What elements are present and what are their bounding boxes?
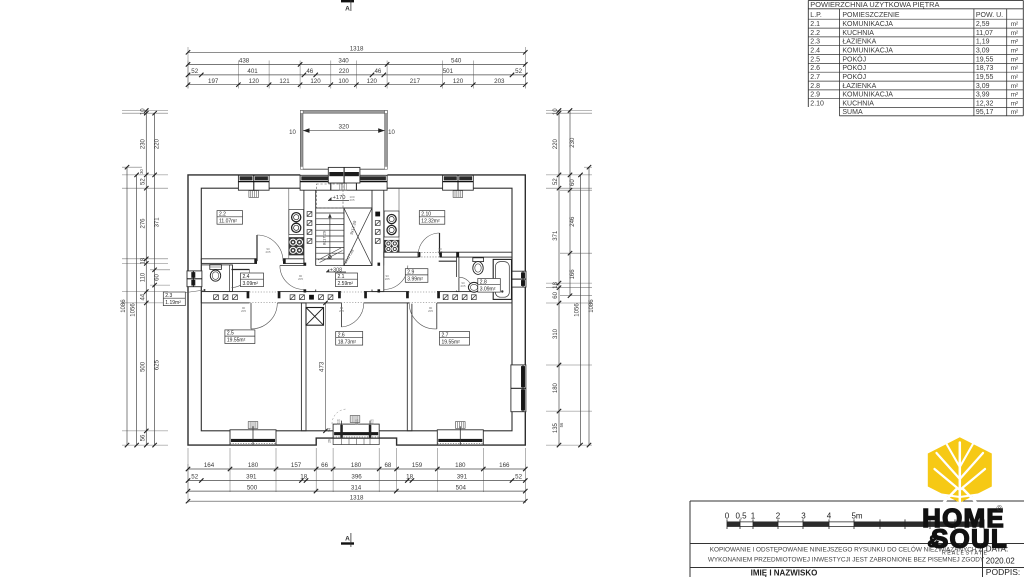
svg-text:52: 52 — [191, 68, 198, 75]
svg-text:1056: 1056 — [131, 303, 137, 317]
svg-text:m²: m² — [1011, 30, 1018, 37]
svg-text:2.7: 2.7 — [442, 332, 449, 338]
svg-text:19,55: 19,55 — [976, 56, 994, 63]
svg-text:m²: m² — [1011, 56, 1018, 63]
svg-text:L.P.: L.P. — [810, 12, 822, 19]
svg-text:1,19: 1,19 — [976, 39, 990, 46]
svg-text:2020.02: 2020.02 — [986, 557, 1015, 566]
svg-text:19.55m²: 19.55m² — [227, 338, 246, 344]
svg-text:10: 10 — [553, 108, 559, 115]
svg-text:26: 26 — [328, 439, 332, 443]
svg-text:310: 310 — [553, 328, 559, 339]
svg-text:18.73m²: 18.73m² — [338, 339, 357, 345]
svg-text:391: 391 — [246, 474, 257, 481]
svg-text:85: 85 — [337, 422, 341, 426]
svg-text:POW. U.: POW. U. — [976, 12, 1003, 19]
svg-text:625: 625 — [154, 359, 160, 370]
svg-text:396: 396 — [351, 474, 362, 481]
svg-text:85: 85 — [355, 422, 359, 426]
svg-text:217: 217 — [410, 78, 421, 85]
svg-text:8x17,29: 8x17,29 — [322, 230, 327, 245]
svg-text:3: 3 — [801, 512, 806, 521]
svg-text:10: 10 — [289, 130, 296, 136]
svg-text:m²: m² — [1011, 48, 1018, 55]
svg-text:10: 10 — [388, 130, 395, 136]
svg-text:180: 180 — [351, 462, 362, 469]
svg-text:205: 205 — [241, 309, 246, 313]
svg-text:246: 246 — [570, 216, 576, 227]
svg-text:205: 205 — [428, 309, 433, 313]
svg-text:52: 52 — [515, 68, 522, 75]
svg-text:2.9: 2.9 — [407, 270, 414, 276]
svg-text:320: 320 — [338, 123, 349, 130]
svg-text:166: 166 — [499, 462, 510, 469]
svg-text:WYKONANIEM PRZEDMIOTOWEJ INWES: WYKONANIEM PRZEDMIOTOWEJ INWESTYCJI JEST… — [708, 557, 985, 564]
svg-text:5m: 5m — [851, 512, 862, 521]
svg-text:11,07: 11,07 — [976, 30, 993, 37]
svg-text:2.4: 2.4 — [810, 48, 820, 55]
svg-text:3,09: 3,09 — [976, 48, 990, 55]
svg-text:ŁAZIENKA: ŁAZIENKA — [842, 83, 876, 90]
svg-text:POKÓJ: POKÓJ — [842, 54, 866, 63]
svg-text:473: 473 — [318, 361, 325, 372]
svg-text:2.7: 2.7 — [810, 74, 820, 81]
svg-text:205: 205 — [437, 250, 442, 254]
svg-text:SOUL: SOUL — [931, 524, 1008, 554]
svg-text:180: 180 — [455, 462, 466, 469]
svg-text:SUMA: SUMA — [842, 109, 863, 116]
svg-text:1086: 1086 — [121, 299, 127, 313]
svg-text:POKÓJ: POKÓJ — [842, 63, 866, 72]
svg-text:0: 0 — [725, 512, 730, 521]
svg-text:POMIESZCZENIE: POMIESZCZENIE — [842, 12, 900, 19]
svg-text:2.4: 2.4 — [243, 274, 250, 280]
svg-text:2: 2 — [776, 512, 781, 521]
svg-text:46: 46 — [374, 68, 381, 75]
svg-text:205: 205 — [265, 250, 270, 254]
svg-text:56: 56 — [140, 434, 146, 441]
svg-text:m²: m² — [1011, 109, 1018, 116]
svg-text:164: 164 — [204, 462, 215, 469]
svg-text:205: 205 — [385, 277, 390, 281]
svg-text:500: 500 — [140, 361, 146, 372]
svg-text:2.10: 2.10 — [421, 211, 431, 217]
svg-text:KOMUNIKACJA: KOMUNIKACJA — [842, 48, 893, 55]
svg-text:2.3: 2.3 — [165, 293, 172, 299]
svg-text:12,32: 12,32 — [976, 101, 994, 108]
svg-text:166: 166 — [570, 269, 576, 280]
svg-text:501: 501 — [443, 68, 454, 75]
svg-text:18: 18 — [553, 281, 559, 288]
svg-text:314: 314 — [351, 484, 362, 491]
svg-text:44: 44 — [140, 293, 146, 300]
svg-text:KOMUNIKACJA: KOMUNIKACJA — [842, 21, 893, 28]
svg-text:IMIĘ I NAZWISKO: IMIĘ I NAZWISKO — [751, 569, 818, 577]
svg-text:2.6: 2.6 — [810, 65, 820, 72]
svg-text:500: 500 — [247, 484, 258, 491]
svg-text:KUCHNIA: KUCHNIA — [842, 30, 874, 37]
svg-text:19,55: 19,55 — [976, 74, 994, 81]
svg-text:60: 60 — [553, 291, 559, 298]
svg-text:230: 230 — [570, 137, 576, 148]
svg-text:A: A — [345, 536, 350, 543]
svg-text:230: 230 — [140, 138, 146, 149]
svg-text:371: 371 — [154, 217, 160, 228]
svg-text:120: 120 — [310, 78, 321, 85]
svg-text:95,17: 95,17 — [976, 109, 994, 116]
svg-text:68: 68 — [384, 462, 391, 469]
svg-text:205: 205 — [349, 198, 354, 202]
svg-text:POWIERZCHNIA UŻYTKOWA PIĘTRA: POWIERZCHNIA UŻYTKOWA PIĘTRA — [810, 0, 939, 9]
svg-text:3.09m²: 3.09m² — [243, 281, 259, 287]
svg-text:120: 120 — [249, 78, 260, 85]
svg-text:3,99: 3,99 — [976, 92, 990, 99]
svg-text:2.10: 2.10 — [810, 101, 824, 108]
svg-text:2.3: 2.3 — [810, 39, 820, 46]
svg-text:2.1: 2.1 — [810, 21, 820, 28]
svg-text:2.6: 2.6 — [338, 332, 345, 338]
svg-text:2.5: 2.5 — [227, 331, 234, 337]
svg-text:1318: 1318 — [350, 494, 364, 501]
svg-text:220: 220 — [553, 138, 559, 149]
svg-text:205: 205 — [339, 309, 344, 313]
svg-text:1086: 1086 — [589, 299, 595, 313]
svg-text:m²: m² — [1011, 101, 1018, 108]
svg-text:3.99m²: 3.99m² — [407, 277, 423, 283]
svg-text:m²: m² — [1011, 74, 1018, 81]
svg-text:46: 46 — [306, 68, 313, 75]
svg-text:18: 18 — [406, 474, 413, 481]
svg-text:2.5: 2.5 — [810, 56, 820, 63]
svg-text:2.9: 2.9 — [810, 92, 820, 99]
svg-text:30: 30 — [139, 169, 144, 174]
svg-text:2.59m²: 2.59m² — [338, 281, 354, 287]
svg-text:1056: 1056 — [575, 303, 581, 317]
svg-text:1.19m²: 1.19m² — [165, 300, 181, 306]
svg-text:504: 504 — [456, 484, 467, 491]
svg-text:3,09: 3,09 — [976, 83, 990, 90]
svg-text:+308: +308 — [330, 267, 342, 273]
svg-text:157: 157 — [291, 462, 302, 469]
svg-text:2,59: 2,59 — [976, 21, 990, 28]
svg-text:11.07m²: 11.07m² — [219, 218, 237, 224]
svg-text:1318: 1318 — [350, 46, 364, 53]
svg-text:121: 121 — [279, 78, 290, 85]
svg-text:205: 205 — [460, 284, 465, 288]
svg-text:m²: m² — [1011, 21, 1018, 28]
svg-text:m²: m² — [1011, 92, 1018, 99]
svg-text:391: 391 — [457, 474, 468, 481]
svg-text:85: 85 — [370, 422, 374, 426]
svg-text:0,5: 0,5 — [735, 512, 747, 521]
svg-text:60: 60 — [154, 274, 160, 281]
svg-text:220: 220 — [154, 138, 160, 149]
svg-text:401: 401 — [247, 68, 258, 75]
svg-text:180: 180 — [553, 382, 559, 393]
svg-text:371: 371 — [553, 230, 559, 241]
svg-text:54: 54 — [328, 428, 332, 432]
svg-text:438: 438 — [239, 58, 250, 65]
svg-text:18,73: 18,73 — [976, 65, 994, 72]
svg-text:2.2: 2.2 — [810, 30, 820, 37]
svg-text:+170: +170 — [332, 195, 345, 201]
svg-text:ŁAZIENKA: ŁAZIENKA — [842, 39, 876, 46]
svg-text:66: 66 — [321, 462, 328, 469]
svg-text:56: 56 — [559, 422, 564, 427]
svg-text:120: 120 — [453, 78, 464, 85]
svg-text:52: 52 — [191, 474, 198, 481]
svg-text:205: 205 — [298, 277, 303, 281]
svg-text:m²: m² — [1011, 83, 1018, 90]
svg-text:110: 110 — [140, 272, 146, 282]
svg-text:®: ® — [997, 504, 1003, 513]
svg-text:POKÓJ: POKÓJ — [842, 72, 866, 81]
svg-text:m²: m² — [1011, 39, 1018, 46]
svg-text:KUCHNIA: KUCHNIA — [842, 101, 874, 108]
svg-text:PODPIS:: PODPIS: — [986, 567, 1020, 577]
svg-text:2.8: 2.8 — [810, 83, 820, 90]
svg-text:KOMUNIKACJA: KOMUNIKACJA — [842, 92, 893, 99]
svg-text:100: 100 — [338, 78, 349, 85]
svg-text:180: 180 — [248, 462, 259, 469]
svg-text:203: 203 — [494, 78, 505, 85]
svg-text:52: 52 — [553, 178, 559, 185]
svg-text:2.1: 2.1 — [338, 274, 345, 280]
svg-text:120: 120 — [367, 78, 378, 85]
svg-text:276: 276 — [140, 218, 146, 229]
svg-text:52: 52 — [515, 474, 522, 481]
svg-text:12.32m²: 12.32m² — [421, 218, 440, 224]
svg-text:4: 4 — [827, 512, 832, 521]
svg-text:540: 540 — [451, 58, 462, 65]
svg-text:19.55m²: 19.55m² — [442, 339, 461, 345]
svg-text:10: 10 — [140, 108, 146, 115]
svg-text:18: 18 — [140, 257, 146, 264]
svg-text:2.2: 2.2 — [219, 211, 226, 217]
svg-text:R E A L E S T A T E: R E A L E S T A T E — [942, 551, 988, 557]
svg-text:52: 52 — [140, 178, 146, 185]
svg-text:m²: m² — [1011, 65, 1018, 72]
svg-text:220: 220 — [339, 68, 350, 75]
svg-text:A: A — [345, 6, 350, 13]
svg-text:60: 60 — [570, 179, 576, 186]
svg-text:1: 1 — [751, 512, 756, 521]
svg-text:197: 197 — [208, 78, 219, 85]
svg-text:2.8: 2.8 — [480, 279, 487, 285]
svg-text:340: 340 — [338, 58, 349, 65]
svg-text:159: 159 — [412, 462, 423, 469]
svg-text:3.09m²: 3.09m² — [480, 286, 496, 292]
svg-text:18: 18 — [300, 474, 307, 481]
